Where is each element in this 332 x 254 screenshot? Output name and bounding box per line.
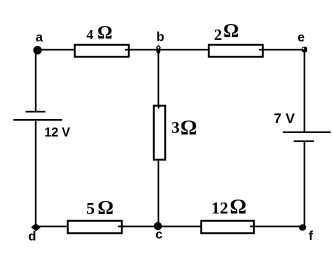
svg-text:Ω: Ω [223,21,239,42]
svg-text:e: e [298,30,305,45]
battery V2 7V right: long plate [283,131,331,133]
svg-text:Ω: Ω [230,194,247,218]
wire bottom d to f [36,225,305,227]
svg-text:b: b [156,29,164,44]
value label 2 ohm [214,21,239,44]
wire stub entering R2 right side [259,49,263,51]
resistor R4 5 ohm body [68,221,122,233]
value label 3 ohm [171,116,197,140]
svg-text:c: c [155,226,162,241]
resistor R5 12 ohm body [201,221,254,233]
node e junction dot [302,47,307,53]
wire stub entering R1 right side [125,49,129,51]
svg-text:12: 12 [211,198,228,217]
value label 5 ohm [86,197,113,219]
battery V1 12V left: long plate [13,119,62,121]
wire stub entering R5 right side [250,225,254,227]
svg-text:3: 3 [171,118,179,137]
svg-text:7 V: 7 V [274,110,296,126]
node b junction marker [156,46,160,55]
value label 4 ohm [86,23,112,44]
wire stub entering R4 right side [118,225,122,227]
svg-text:5: 5 [86,199,95,218]
wire right rail upper segment e to battery [303,50,305,133]
value label 12 ohm [211,194,246,218]
svg-text:Ω: Ω [97,23,112,44]
battery V2 7V right: short plate [294,140,314,142]
resistor R1 4 ohm body [75,45,129,57]
wire top a to e [36,49,304,51]
wire left rail lower segment battery to d [35,120,37,226]
wire left rail upper segment a to battery [35,50,37,112]
node d junction dot [32,224,40,230]
svg-text:f: f [309,228,314,243]
svg-text:Ω: Ω [180,116,197,140]
svg-text:Ω: Ω [98,197,114,219]
svg-text:2: 2 [214,27,222,44]
wire middle rail b to c [157,50,159,227]
svg-text:4: 4 [86,28,93,43]
node f junction dot [299,224,306,230]
svg-text:a: a [36,30,44,45]
wire stub entering R3 top side [158,106,160,109]
svg-text:12 V: 12 V [44,125,70,139]
battery V1 12V left: short plate [26,111,46,113]
wire right rail lower segment battery to f [303,141,305,226]
node c junction dot [154,222,162,230]
node a junction dot [33,46,42,55]
resistor R2 2 ohm body [209,45,263,57]
resistor R3 3 ohm body [154,106,165,160]
svg-text:d: d [28,229,36,244]
